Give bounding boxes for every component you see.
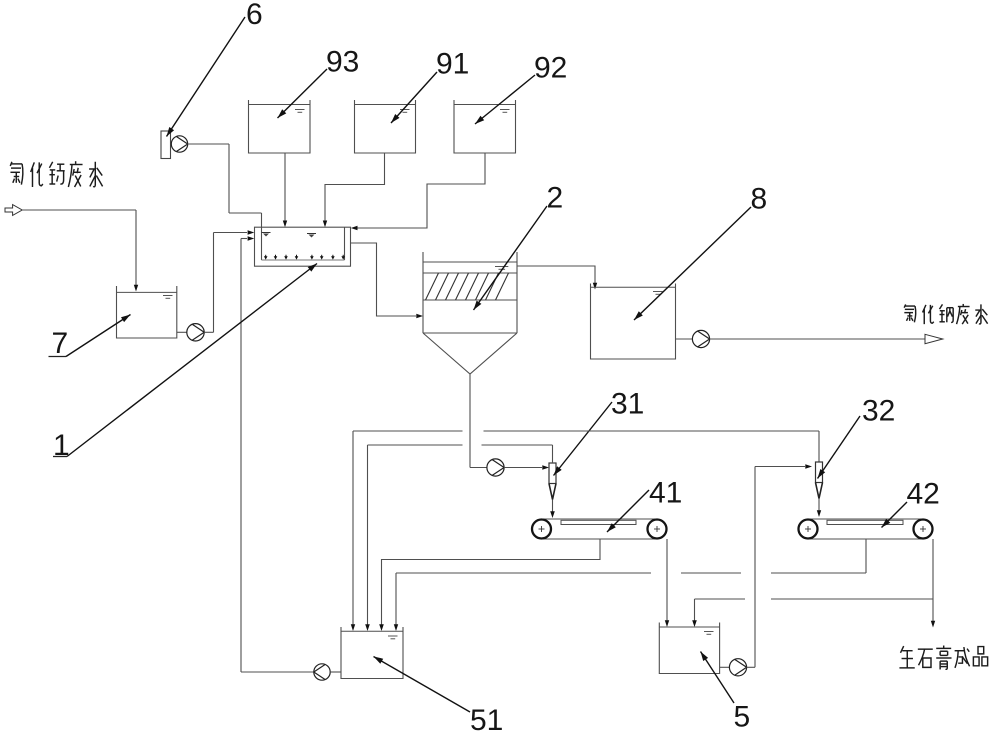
- wire pump7 right: [204, 331, 213, 333]
- pump 6: [171, 136, 187, 152]
- wire line A riser to tank 51: [352, 431, 354, 626]
- arrowhead into tank 7: [134, 285, 138, 292]
- arrowhead line E into tank 5: [692, 620, 697, 627]
- nozzle 32 cone: [816, 483, 823, 499]
- wire belt42 product down: [932, 539, 934, 621]
- wire inlet down to tank 7: [135, 210, 137, 287]
- clarifier hatch: [426, 273, 439, 300]
- svg-text:5: 5: [734, 701, 751, 733]
- label 6 arrow: [167, 17, 246, 137]
- svg-text:51: 51: [470, 704, 503, 732]
- svg-text:41: 41: [649, 477, 682, 510]
- label 32 arrow: [818, 416, 861, 479]
- wire pump6 down: [228, 144, 230, 213]
- reactor inner wall left: [261, 227, 263, 260]
- nozzle 31: [549, 463, 556, 484]
- nozzle 31 cone: [549, 484, 556, 500]
- pump after tank 8: [692, 330, 709, 347]
- arrowhead line D into tank 51: [394, 624, 398, 631]
- arrowhead into nozzle 32 left: [805, 464, 812, 469]
- wire line A right segment: [484, 430, 820, 432]
- arrowhead inlet 2 of reactor: [248, 236, 255, 241]
- wire tank93 to reactor: [284, 153, 286, 222]
- reactor tank 1: [255, 227, 351, 266]
- wire reactor to clarifier: [351, 243, 417, 316]
- belt filter 41: [542, 518, 658, 520]
- label 42 arrow: [882, 502, 908, 528]
- tank 51: [341, 627, 403, 679]
- label 7 arrow: [66, 315, 131, 357]
- reactor inner bottom: [262, 259, 345, 261]
- label 51 arrow: [374, 657, 471, 713]
- svg-text:31: 31: [611, 388, 644, 421]
- wire belt42 filtrate down: [865, 539, 867, 573]
- wire line E segment right: [771, 598, 933, 600]
- arrowhead tank92 feed: [351, 226, 358, 230]
- wire pump to nozzle 31: [504, 467, 542, 469]
- nozzle 32: [816, 462, 823, 483]
- svg-text:91: 91: [436, 48, 469, 81]
- belt filter 42: [808, 518, 923, 520]
- wire line D segment right: [771, 572, 866, 574]
- label 1 underline: [53, 456, 67, 458]
- arrowhead line B into tank 51: [365, 624, 370, 631]
- wire belt41 discharge to tank 5: [666, 539, 668, 622]
- arrowhead inlet 1 of reactor: [248, 230, 255, 235]
- tank 5: [659, 623, 719, 674]
- svg-text:92: 92: [534, 52, 567, 85]
- arrowhead tank91 feed: [323, 221, 327, 228]
- wire line E segment left: [695, 598, 746, 600]
- wire nozzle 31 drop: [552, 500, 554, 512]
- arrowhead into clarifier: [416, 314, 423, 318]
- tank 93: [249, 100, 311, 153]
- wire clarifier underflow: [469, 374, 471, 468]
- wire line B left segment: [368, 444, 463, 446]
- arrowhead line C into tank 51: [379, 624, 384, 631]
- wire line A left segment: [353, 430, 463, 432]
- wire NaCl outlet: [710, 338, 925, 340]
- arrowhead onto belt 41: [550, 511, 555, 518]
- tank 91: [355, 100, 416, 153]
- wire pump6 to reactor: [229, 212, 262, 214]
- wire pump51 to tank 51: [330, 671, 341, 673]
- label 8 arrow: [634, 207, 751, 320]
- arrowhead into tank 8: [593, 283, 597, 290]
- clarifier 2: [422, 252, 424, 333]
- wire tank7 to pump7: [177, 331, 187, 333]
- wire line A down to nozzle 32: [818, 431, 820, 462]
- label 41 arrow: [607, 490, 649, 532]
- wire line C belt41 filtrate: [382, 539, 601, 626]
- inlet open arrow: [5, 205, 22, 216]
- wire line B riser to tank 51: [367, 445, 369, 626]
- svg-text:2: 2: [547, 182, 564, 215]
- pump after tank 5: [729, 659, 746, 676]
- label 7 underline: [49, 356, 67, 358]
- arrowhead tank93 feed: [283, 221, 287, 228]
- dosing device 6: [161, 131, 171, 159]
- pump after tank 51: [314, 664, 330, 680]
- svg-text:6: 6: [246, 0, 263, 31]
- pump underflow: [487, 459, 504, 476]
- wire line B right segment: [482, 444, 553, 446]
- label 92 arrow: [475, 75, 535, 124]
- wire tank92 to reactor: [358, 153, 486, 228]
- wire recycle vertical: [240, 239, 242, 673]
- reactor aerator arrows: [264, 256, 268, 259]
- wire line D segment left: [396, 572, 651, 574]
- arrowhead into nozzle 31: [542, 465, 549, 470]
- clarifier cone: [423, 333, 517, 374]
- wire line B down to nozzle 31: [552, 445, 554, 463]
- arrowhead line A into tank 51: [351, 624, 355, 631]
- wire inlet horizontal: [22, 209, 136, 211]
- text 氯化钙废水: [10, 161, 102, 187]
- label 93 arrow: [278, 69, 328, 118]
- svg-text:7: 7: [52, 327, 69, 360]
- wire tank5 to pump5: [720, 666, 730, 668]
- wire line D segment mid: [681, 572, 741, 574]
- svg-text:32: 32: [862, 395, 895, 428]
- svg-text:42: 42: [907, 478, 940, 511]
- wire line D riser to tank 51: [395, 573, 397, 626]
- wire pump6 drop into reactor: [261, 213, 263, 227]
- arrowhead onto belt 42: [817, 510, 821, 517]
- reactor water level marks: [262, 232, 271, 234]
- label 2 arrow: [474, 206, 548, 310]
- svg-text:8: 8: [751, 183, 768, 216]
- text 氯化钠废水: [904, 304, 987, 324]
- label 91 arrow: [391, 72, 437, 123]
- wire line E down to tank 5: [694, 599, 696, 622]
- wire pump7 riser: [213, 233, 215, 333]
- wire clarifier overflow: [517, 266, 595, 284]
- wire tank5 pump riser: [754, 467, 756, 668]
- outlet open arrow NaCl: [925, 334, 943, 343]
- wire tank8 to pump8: [676, 338, 693, 340]
- arrowhead belt41 into tank 5: [665, 620, 669, 627]
- label 1 arrow: [67, 264, 317, 457]
- wire tank91 to reactor: [325, 153, 385, 222]
- svg-text:93: 93: [326, 46, 359, 79]
- tank 92: [454, 100, 516, 153]
- wire recycle into reactor: [241, 238, 247, 240]
- tank 8: [591, 284, 676, 360]
- text 生石膏成品: [899, 646, 987, 670]
- label 31 arrow: [554, 402, 613, 476]
- wire into reactor 1 top inlet: [214, 232, 248, 234]
- wire pump5 to riser: [747, 666, 755, 668]
- wire recycle bottom horizontal: [241, 671, 314, 673]
- arrowhead product: [931, 621, 935, 628]
- label 5 arrow: [701, 652, 735, 704]
- wire riser to nozzle 32: [755, 466, 805, 468]
- wire pump6 right: [188, 143, 229, 145]
- pump after tank 7: [187, 324, 204, 341]
- wire underflow to pump: [470, 467, 487, 469]
- wire nozzle 32 drop: [818, 499, 820, 511]
- tank 7: [117, 286, 177, 338]
- reactor inner wall right: [344, 227, 346, 260]
